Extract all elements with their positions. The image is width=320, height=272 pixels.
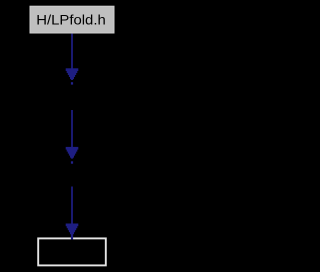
node B (edge 2 tip dot) bbox=[71, 161, 73, 163]
node H/LPfold.h bbox=[30, 6, 114, 33]
wire edge 1 line bbox=[71, 34, 73, 69]
node A (edge 1 tip dot) bbox=[71, 82, 73, 84]
wire edge 3 arrowhead bbox=[66, 224, 79, 240]
wire edge 3 line bbox=[71, 187, 73, 225]
node empty box bbox=[38, 238, 106, 265]
svg-text:H/LPfold.h: H/LPfold.h bbox=[36, 13, 106, 28]
wire edge 1 arrowhead bbox=[66, 68, 79, 80]
wire edge 2 arrowhead bbox=[66, 147, 79, 159]
wire edge 2 line bbox=[71, 110, 73, 148]
